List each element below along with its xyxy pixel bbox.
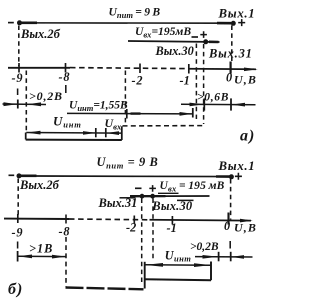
- underline below Uвх label (b): [158, 192, 179, 194]
- measure Uинт left arrowhead (a): [27, 131, 41, 135]
- measure >0,6В left arrowhead (a): [190, 103, 204, 107]
- svg-text:-1: -1: [180, 74, 190, 88]
- measure line Uинт (b): [145, 264, 211, 266]
- dashed vertical threshold 2 (b): [152, 199, 154, 262]
- measure Uинт right arrowhead (a): [83, 131, 96, 135]
- axis U,B (b): dashed middle part: [69, 218, 150, 221]
- measure bar right >0,2В (b): [230, 252, 232, 261]
- level line Uпит (a): right thick segment: [217, 22, 231, 25]
- dashed horizontal step (a): [123, 125, 204, 127]
- measure line 1,55В (a): [67, 112, 192, 115]
- dip dashed vertical left edge (b): [65, 237, 67, 287]
- bracket left riser (a): [25, 133, 27, 140]
- svg-text:Вых.31: Вых.31: [208, 47, 253, 61]
- measure bar left >0,2В (b): [218, 252, 220, 261]
- measure Uинт left arrowhead (b): [145, 263, 163, 267]
- node dot right on Uпит line (a): [231, 21, 236, 26]
- axis U,B (a): dashed middle part: [70, 68, 188, 69]
- level line Uпит (b): thick segment: [21, 175, 37, 178]
- dashed vertical threshold mid (a): [124, 71, 126, 126]
- short dash below tick -8 (a): [65, 85, 67, 93]
- svg-text:>0,2В: >0,2В: [190, 241, 219, 253]
- measure bar at -9 (b): [17, 251, 19, 262]
- svg-text:0: 0: [226, 71, 232, 85]
- measure bar 2 Uвх (a): [105, 128, 107, 137]
- short dash below tick -9 (b): [17, 242, 19, 249]
- tick -9 (a): [18, 63, 20, 73]
- overline over 30 (b): [177, 199, 194, 201]
- axis U,B (b): solid right part: [150, 219, 252, 222]
- measure bar right on 1,55В line (a): [192, 108, 194, 118]
- axis arrowhead (b): [240, 219, 253, 223]
- plus sign at Вых.1 (a): [238, 19, 245, 26]
- measure 1,55В right arrowhead (a): [180, 112, 193, 116]
- svg-text:Uпит = 9 В: Uпит = 9 В: [109, 6, 161, 21]
- output low shape bottom (b): [145, 278, 211, 281]
- measure >0,6В right arrowhead (a): [231, 103, 245, 107]
- plus sign near Uвх line (b): [149, 185, 156, 192]
- dashed vertical from Вых.2б dot to axis (b): [17, 179, 19, 218]
- dashed vertical threshold left (a): [25, 71, 27, 133]
- thick dash on 1,55В line (a): [131, 112, 141, 114]
- output low shape right riser (b): [210, 262, 212, 281]
- measure bar 1 Uвх (a): [95, 128, 97, 137]
- dashed vertical Вых.1 drop (b): [230, 179, 232, 220]
- plus sign near Uвх line (a): [200, 31, 207, 38]
- level line Uпит (b): left dash: [9, 174, 15, 176]
- level line Uпит (b): right thick segment: [216, 175, 230, 178]
- measure >0,2В left arrowhead (b): [203, 255, 219, 259]
- svg-text:Вых.2б: Вых.2б: [19, 178, 60, 192]
- tick -2 (b): [133, 216, 135, 225]
- minus sign near Uвх line (a): [192, 36, 199, 38]
- axis U,B (b): solid left part: [4, 218, 69, 220]
- measure >0,2В line (b): [195, 256, 253, 258]
- measure Uинт right arrowhead (b): [194, 263, 211, 267]
- tick -9 (b): [17, 214, 19, 223]
- axis arrowhead (a): [244, 68, 258, 72]
- svg-text:-9: -9: [12, 71, 24, 85]
- level line Uпит (a): main wire: [37, 22, 232, 24]
- measure >0,2В right arrowhead (a): [27, 102, 41, 106]
- axis U,B (a): solid right part: [188, 68, 256, 71]
- level line Uпит (b): main wire: [37, 175, 231, 178]
- dashed vertical from Вых.2б dot to axis (a): [18, 26, 20, 67]
- svg-text:U,В: U,В: [234, 221, 257, 235]
- axis U,B (a): solid left part: [8, 67, 70, 69]
- short dash below tick 0 (b): [229, 241, 231, 249]
- measure >0,2В left arrowhead (a): [4, 102, 18, 106]
- dashed vertical Вых.1 drop (a): [231, 26, 233, 62]
- dashed vertical threshold 1 (b): [141, 199, 143, 284]
- tick -2 (a): [139, 64, 141, 74]
- level line Uвх (b): thick left segment: [130, 195, 166, 197]
- node dot right on Uпит line (b): [229, 174, 234, 179]
- svg-text:>1В: >1В: [29, 242, 53, 256]
- svg-text:-8: -8: [59, 70, 71, 84]
- node dot 1 on Uвх line (b): [140, 194, 145, 199]
- measure >0,2В right arrowhead (b): [231, 255, 244, 259]
- dip dashed bottom (b): [66, 288, 144, 290]
- measure bar at -9 (a): [17, 100, 19, 109]
- level line Uвх (b): [130, 195, 210, 197]
- measure bar right >0,6В (a): [230, 98, 232, 110]
- svg-text:>0,6В: >0,6В: [197, 92, 229, 104]
- svg-text:Вых.30: Вых.30: [155, 44, 194, 58]
- short dash below tick -9 (a): [17, 89, 19, 96]
- svg-text:-9: -9: [12, 226, 24, 240]
- tick 0 (a): [230, 62, 232, 74]
- bracket bottom line (a): [26, 139, 122, 141]
- output low shape left riser (b): [144, 262, 146, 289]
- measure >1В right arrowhead (b): [52, 255, 66, 259]
- level line Uвх (a): [128, 41, 220, 42]
- svg-text:0: 0: [224, 219, 230, 233]
- tick -8 (b): [65, 215, 67, 224]
- overline over 31 (b): [120, 197, 136, 199]
- svg-text:>0,2В: >0,2В: [29, 89, 63, 103]
- svg-text:-8: -8: [59, 225, 71, 239]
- level line Uпит (a): left dash: [8, 22, 14, 24]
- svg-text:Uпит = 9 В: Uпит = 9 В: [97, 155, 159, 171]
- node dot left on Uпит line (b): [17, 173, 22, 178]
- svg-text:а): а): [240, 128, 255, 145]
- tick -1 (b): [171, 216, 173, 225]
- svg-text:Вых.1: Вых.1: [218, 7, 256, 21]
- svg-text:б): б): [8, 281, 23, 298]
- level line Uпит (a): thick segment: [22, 21, 38, 24]
- dashed vertical threshold A (a): [195, 44, 197, 120]
- svg-text:-2: -2: [132, 74, 144, 88]
- measure Uвх left-pointing arrowhead (a): [106, 131, 119, 135]
- measure >0,2В line (a): [3, 103, 47, 106]
- plus sign at Вых.1 (b): [235, 173, 242, 180]
- svg-text:-2: -2: [126, 221, 136, 235]
- tick -8 (a): [65, 63, 67, 73]
- measure line Uинт (a): [26, 132, 121, 135]
- bracket right riser (a): [121, 126, 123, 140]
- svg-text:-1: -1: [167, 221, 177, 235]
- measure >1В left arrowhead (b): [18, 255, 32, 259]
- node dot 2 on Uвх line (b): [150, 194, 155, 199]
- measure >1В line (b): [18, 255, 66, 257]
- dashed vertical threshold B (a): [203, 44, 205, 124]
- node dot on Uвх line (a): [203, 39, 208, 44]
- svg-text:Вых.2б: Вых.2б: [20, 27, 61, 41]
- measure >0,6В line (a): [181, 103, 256, 106]
- level line Uвх (a): right thick segment: [209, 40, 219, 43]
- svg-text:Вых.1: Вых.1: [218, 159, 256, 173]
- svg-text:U,В: U,В: [234, 73, 257, 87]
- measure bar mid on 1,55В line (a): [126, 109, 128, 119]
- node dot left on Uпит line (a): [17, 20, 22, 25]
- tick 0 (b): [227, 213, 229, 225]
- minus sign near Uвх line (b): [135, 187, 142, 189]
- measure bar left >0,6В (a): [203, 98, 205, 110]
- tick -1 (a): [188, 64, 190, 74]
